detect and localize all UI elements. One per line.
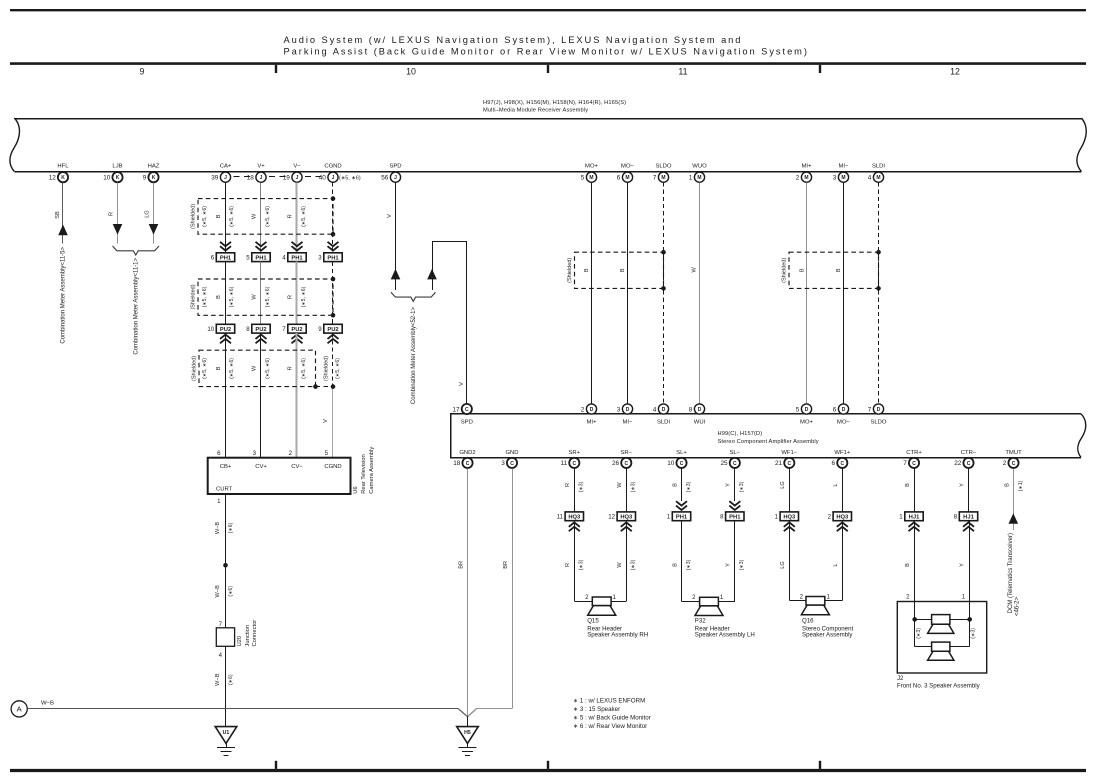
svg-text:(∗5, ∗6): (∗5, ∗6)	[339, 175, 361, 181]
arrow from DCM	[1009, 513, 1019, 524]
header rule	[10, 62, 1086, 65]
svg-text:SLDO: SLDO	[655, 163, 671, 169]
amplifier pin 17(C) SPD	[462, 404, 472, 414]
svg-text:K: K	[61, 175, 65, 181]
svg-text:C: C	[840, 461, 844, 467]
svg-text:B: B	[905, 563, 911, 567]
svg-text:1: 1	[899, 514, 903, 521]
svg-text:∗ 1 : w/ LEXUS ENFORM: ∗ 1 : w/ LEXUS ENFORM	[573, 697, 645, 704]
svg-text:B: B	[216, 295, 222, 299]
svg-text:3: 3	[253, 450, 257, 457]
svg-text:Multi–Media Module Receiver As: Multi–Media Module Receiver Assembly	[483, 107, 588, 113]
svg-text:R: R	[565, 483, 571, 487]
svg-text:B: B	[620, 268, 626, 272]
svg-text:1: 1	[962, 593, 966, 600]
svg-text:W: W	[617, 482, 623, 488]
svg-text:CTR−: CTR−	[961, 450, 977, 456]
amplifier pin 6(D) MO−	[838, 404, 848, 414]
svg-text:PU2: PU2	[255, 327, 266, 333]
svg-text:R: R	[288, 295, 294, 299]
wire GND2 BR	[467, 468, 469, 716]
svg-text:J: J	[332, 175, 335, 181]
svg-text:(∗3): (∗3)	[739, 481, 745, 492]
amplifier pin 5(D) MO+	[801, 404, 811, 414]
junction connector U20	[216, 628, 234, 647]
svg-text:Junction: Junction	[245, 625, 251, 647]
connector arrows out of PU2 at 297	[292, 335, 303, 344]
top border rule	[10, 9, 1086, 11]
wire CV+ W (PU2 to camera)	[260, 333, 262, 458]
svg-text:SLDI: SLDI	[872, 163, 885, 169]
svg-text:SLDO: SLDO	[870, 420, 886, 426]
svg-text:7: 7	[653, 175, 657, 182]
shield box MO+/MO-	[575, 252, 664, 288]
svg-text:4: 4	[219, 652, 223, 659]
svg-text:11: 11	[560, 460, 567, 467]
svg-text:MO+: MO+	[800, 420, 813, 426]
svg-text:(∗3): (∗3)	[631, 481, 637, 492]
svg-text:7: 7	[219, 621, 223, 628]
svg-text:18: 18	[247, 175, 255, 182]
shield box 3 (CB+/CV+/CV-)	[199, 350, 316, 386]
wire Y to J2 pin 1	[969, 521, 971, 620]
wire B to P32 pin 2	[681, 521, 683, 602]
svg-text:PH1: PH1	[327, 256, 339, 262]
svg-text:CV+: CV+	[255, 464, 267, 470]
svg-text:LG: LG	[780, 561, 786, 568]
svg-text:M: M	[841, 175, 845, 181]
svg-text:11: 11	[557, 514, 564, 521]
svg-text:J: J	[260, 175, 263, 181]
svg-text:Y: Y	[959, 563, 965, 567]
svg-text:56: 56	[381, 175, 389, 182]
svg-text:5: 5	[796, 406, 800, 413]
connector arrows into PH1 at 297	[292, 242, 303, 251]
ground U1	[215, 727, 237, 744]
svg-text:(∗5, ∗6): (∗5, ∗6)	[202, 358, 208, 379]
wire CGND V (to camera)	[332, 387, 334, 458]
svg-text:SPD: SPD	[461, 420, 473, 426]
svg-text:L: L	[833, 563, 839, 566]
svg-text:MI−: MI−	[623, 420, 634, 426]
connector PU2 pin 10	[216, 324, 234, 333]
svg-text:HQ3: HQ3	[783, 515, 796, 521]
svg-text:(∗3): (∗3)	[579, 481, 585, 492]
svg-text:Y: Y	[726, 563, 732, 567]
svg-text:B: B	[800, 268, 806, 272]
svg-text:39: 39	[211, 175, 219, 182]
svg-text:Speaker Assembly: Speaker Assembly	[802, 632, 853, 639]
svg-text:(∗3): (∗3)	[739, 559, 745, 570]
svg-text:(∗5, ∗6): (∗5, ∗6)	[229, 286, 235, 307]
wire MI+ to MO+ B	[806, 182, 808, 403]
connector arrows out of PU2 at 225.5	[220, 335, 231, 344]
svg-text:H97(J), H98(X), H156(M), H158(: H97(J), H98(X), H156(M), H158(N), H164(R…	[483, 100, 626, 106]
wire CV- R (PU2 to camera)	[296, 333, 298, 458]
svg-text:2: 2	[289, 450, 293, 457]
brace LJB/HAZ	[113, 246, 160, 255]
svg-text:GND: GND	[505, 450, 518, 456]
svg-text:6: 6	[617, 175, 621, 182]
svg-text:H99(C), H157(D): H99(C), H157(D)	[718, 431, 763, 437]
svg-text:B: B	[672, 483, 678, 487]
svg-text:WF1+: WF1+	[834, 450, 850, 456]
svg-text:PH1: PH1	[676, 515, 688, 521]
svg-text:CA+: CA+	[220, 163, 232, 169]
svg-text:2: 2	[796, 175, 800, 182]
shield box 3 link to drain	[316, 386, 334, 388]
svg-text:3: 3	[501, 460, 505, 467]
svg-text:MO+: MO+	[585, 163, 598, 169]
svg-text:(∗5, ∗6): (∗5, ∗6)	[301, 206, 307, 227]
arrow from combination meter (HAZ)	[149, 224, 159, 235]
ground H5	[467, 717, 469, 727]
svg-text:CTR+: CTR+	[906, 450, 922, 456]
svg-text:W−B: W−B	[215, 522, 221, 535]
wire GND BR	[512, 468, 514, 708]
svg-text:W: W	[252, 294, 258, 300]
svg-text:K: K	[116, 175, 120, 181]
svg-text:W: W	[252, 365, 258, 371]
svg-text:12: 12	[950, 67, 960, 77]
svg-text:∗ 6 : w/ Rear View Monitor: ∗ 6 : w/ Rear View Monitor	[573, 723, 647, 730]
svg-text:P32: P32	[695, 617, 706, 624]
svg-text:D: D	[662, 407, 666, 413]
wire CB+ B (PU2 to camera)	[225, 333, 227, 458]
svg-text:M: M	[661, 175, 665, 181]
shield box MI+/MI-	[789, 252, 879, 288]
svg-text:9: 9	[140, 67, 145, 77]
svg-text:B: B	[672, 563, 678, 567]
svg-text:8: 8	[954, 514, 958, 521]
multi-media module receiver assembly band	[14, 118, 1081, 120]
svg-text:2: 2	[692, 594, 696, 601]
arrow to combination meter (HFL)	[58, 225, 68, 236]
svg-text:6: 6	[833, 406, 837, 413]
wire HFL SB	[62, 182, 64, 243]
svg-text:(∗5, ∗6): (∗5, ∗6)	[202, 206, 208, 227]
svg-text:K: K	[152, 175, 156, 181]
svg-text:MO−: MO−	[837, 420, 850, 426]
svg-text:Speaker Assembly RH: Speaker Assembly RH	[587, 632, 648, 639]
amplifier pin 8(D) WUI	[694, 404, 704, 414]
svg-text:BR: BR	[459, 561, 465, 569]
svg-text:DCM (Telematics Transceiver): DCM (Telematics Transceiver)	[1008, 533, 1014, 613]
wire CA+ B (PH1 to PU2)	[225, 262, 227, 325]
svg-text:D: D	[698, 407, 702, 413]
svg-text:B: B	[216, 366, 222, 370]
svg-text:D: D	[626, 407, 630, 413]
svg-text:V+: V+	[257, 163, 265, 169]
svg-text:(∗5, ∗6): (∗5, ∗6)	[335, 358, 341, 379]
svg-text:(∗5, ∗6): (∗5, ∗6)	[265, 358, 271, 379]
connector PU2 pin 7	[288, 324, 306, 333]
svg-text:C: C	[912, 461, 916, 467]
svg-text:3: 3	[617, 406, 621, 413]
svg-text:22: 22	[954, 460, 962, 467]
television camera assembly U6 box	[208, 458, 351, 494]
wire V+ W (upper)	[260, 182, 262, 252]
svg-text:SL−: SL−	[729, 450, 740, 456]
connector arrows into PH1 at 225.5	[220, 242, 231, 251]
wire W-B camera ground	[225, 494, 227, 628]
wire W to Q15 pin 1	[626, 521, 628, 602]
svg-text:1: 1	[217, 498, 221, 505]
svg-text:5: 5	[581, 175, 585, 182]
amplifier pin 7(D) SLDO	[873, 404, 883, 414]
svg-text:B: B	[216, 214, 222, 218]
svg-text:Q15: Q15	[587, 617, 599, 624]
svg-text:(∗3): (∗3)	[631, 559, 637, 570]
svg-text:W: W	[617, 562, 623, 568]
svg-text:21: 21	[775, 460, 783, 467]
svg-text:HQ3: HQ3	[568, 515, 581, 521]
svg-text:M: M	[697, 175, 701, 181]
wire V- R (upper)	[296, 182, 298, 252]
svg-text:2: 2	[1003, 460, 1007, 467]
svg-text:PU2: PU2	[220, 327, 231, 333]
svg-text:8: 8	[689, 406, 693, 413]
svg-text:M: M	[804, 175, 808, 181]
wire R to Q15 pin 2	[574, 521, 576, 602]
svg-text:Stereo Component Amplifier Ass: Stereo Component Amplifier Assembly	[718, 439, 819, 445]
svg-text:WF1−: WF1−	[781, 450, 797, 456]
connector PH1 pin 4	[288, 253, 306, 262]
svg-text:R: R	[288, 214, 294, 218]
wire HAZ LG	[153, 182, 155, 243]
svg-text:PH1: PH1	[729, 515, 741, 521]
svg-text:J: J	[394, 175, 397, 181]
svg-text:(Shielded): (Shielded)	[567, 258, 573, 283]
wire B to J2 pin 2	[914, 521, 916, 620]
wire V from combination meter to amplifier	[432, 242, 434, 290]
arrow to combination meter (SPD)	[391, 269, 401, 280]
svg-text:(Shielded): (Shielded)	[781, 258, 787, 283]
svg-text:6: 6	[211, 254, 215, 261]
svg-text:Combination Meter Assembly<11-: Combination Meter Assembly<11-1>	[133, 258, 139, 355]
svg-text:5: 5	[246, 254, 250, 261]
svg-text:C: C	[733, 461, 737, 467]
svg-text:1: 1	[667, 514, 671, 521]
svg-text:SR+: SR+	[568, 450, 580, 456]
svg-text:B: B	[836, 268, 842, 272]
svg-text:7: 7	[282, 326, 286, 333]
svg-text:HJ1: HJ1	[963, 515, 974, 521]
svg-text:12: 12	[608, 514, 615, 521]
shield box 1 (CA+/V+/V-)	[198, 199, 333, 235]
svg-text:25: 25	[720, 460, 728, 467]
svg-text:C: C	[466, 461, 470, 467]
speaker J2 lower	[932, 642, 950, 651]
svg-text:HAZ: HAZ	[148, 163, 160, 169]
svg-text:CGND: CGND	[324, 464, 341, 470]
svg-text:(∗5, ∗6): (∗5, ∗6)	[229, 358, 235, 379]
svg-text:∗ 5 : w/ Back Guide Monitor: ∗ 5 : w/ Back Guide Monitor	[573, 715, 651, 722]
svg-text:8: 8	[246, 326, 250, 333]
svg-text:R: R	[288, 366, 294, 370]
wire SLDI to SLDO shield drain (dashed)	[878, 182, 880, 403]
svg-text:MI+: MI+	[587, 420, 598, 426]
connector link dashes V-/CGND	[305, 176, 325, 178]
svg-text:(∗3): (∗3)	[686, 559, 692, 570]
svg-text:LG: LG	[144, 210, 150, 217]
svg-text:Q16: Q16	[802, 617, 814, 624]
svg-text:Camera Assembly: Camera Assembly	[369, 447, 375, 494]
svg-text:1: 1	[689, 175, 693, 182]
svg-text:<46-2>: <46-2>	[1015, 597, 1021, 617]
svg-text:3: 3	[833, 175, 837, 182]
svg-text:W: W	[691, 266, 697, 272]
splice on W-B wire	[223, 563, 228, 568]
svg-text:5: 5	[325, 450, 329, 457]
svg-text:LJB: LJB	[112, 163, 122, 169]
svg-text:10: 10	[406, 67, 416, 77]
svg-text:2: 2	[828, 514, 832, 521]
wire SLDO to SLDI shield drain (dashed)	[663, 182, 665, 403]
svg-text:J2: J2	[897, 675, 904, 682]
svg-text:C: C	[572, 461, 576, 467]
svg-text:D: D	[877, 407, 881, 413]
svg-text:R: R	[108, 212, 114, 216]
svg-text:C: C	[680, 461, 684, 467]
svg-text:(Shielded): (Shielded)	[190, 284, 196, 309]
svg-text:Y: Y	[726, 483, 732, 487]
svg-text:Connector: Connector	[252, 620, 258, 647]
svg-text:6: 6	[217, 450, 221, 457]
wire SPD V	[395, 182, 397, 290]
svg-text:1: 1	[827, 593, 831, 600]
svg-text:L: L	[833, 483, 839, 486]
svg-text:Audio System (w/ LEXUS Navigat: Audio System (w/ LEXUS Navigation System…	[284, 35, 743, 45]
svg-text:(∗5, ∗6): (∗5, ∗6)	[301, 358, 307, 379]
svg-text:(Shielded): (Shielded)	[191, 356, 197, 381]
svg-text:J: J	[224, 175, 227, 181]
svg-text:W: W	[252, 213, 258, 219]
svg-text:9: 9	[318, 326, 322, 333]
svg-text:(∗5, ∗6): (∗5, ∗6)	[301, 286, 307, 307]
svg-text:C: C	[787, 461, 791, 467]
svg-text:10: 10	[207, 326, 214, 333]
grid tick 10/11 bottom	[547, 761, 549, 769]
svg-text:MI+: MI+	[802, 163, 813, 169]
svg-text:(∗3): (∗3)	[970, 628, 976, 639]
svg-text:W−B: W−B	[41, 701, 54, 707]
svg-text:2: 2	[800, 593, 804, 600]
connector PH1 pin 5	[252, 253, 270, 262]
svg-text:PH1: PH1	[220, 256, 232, 262]
svg-text:HQ3: HQ3	[836, 515, 849, 521]
svg-text:W−B: W−B	[215, 585, 221, 598]
wire L to Q16 pin 1	[842, 521, 844, 601]
svg-text:(∗5, ∗6): (∗5, ∗6)	[265, 286, 271, 307]
svg-text:D: D	[842, 407, 846, 413]
svg-text:10: 10	[103, 175, 111, 182]
svg-text:(∗3): (∗3)	[579, 559, 585, 570]
wire CGND shield drain (upper, dashed)	[332, 182, 334, 252]
svg-text:2: 2	[585, 594, 589, 601]
svg-text:C: C	[1012, 461, 1016, 467]
svg-text:(∗6): (∗6)	[228, 522, 234, 533]
svg-text:D: D	[805, 407, 809, 413]
svg-text:4: 4	[868, 175, 872, 182]
svg-text:1: 1	[775, 514, 779, 521]
svg-text:Y: Y	[959, 483, 965, 487]
svg-text:4: 4	[653, 406, 657, 413]
junction J2 left	[912, 617, 917, 622]
svg-text:C: C	[510, 461, 514, 467]
svg-text:(∗5, ∗6): (∗5, ∗6)	[265, 206, 271, 227]
svg-text:H5: H5	[464, 730, 471, 736]
svg-text:3: 3	[318, 254, 322, 261]
svg-text:(∗6): (∗6)	[228, 674, 234, 685]
wire CA+ B (upper)	[225, 182, 227, 252]
svg-text:WUO: WUO	[692, 163, 707, 169]
svg-text:CB+: CB+	[220, 464, 232, 470]
svg-text:M: M	[589, 175, 593, 181]
svg-text:U20: U20	[237, 636, 243, 647]
svg-text:(∗3): (∗3)	[686, 481, 692, 492]
svg-text:26: 26	[612, 460, 620, 467]
connector arrows out of PU2 at 261	[256, 335, 267, 344]
wire LJB R	[117, 182, 119, 243]
svg-text:B: B	[1005, 483, 1011, 487]
svg-text:CGND: CGND	[324, 163, 341, 169]
svg-text:PU2: PU2	[291, 327, 302, 333]
svg-text:Front No. 3 Speaker Assembly: Front No. 3 Speaker Assembly	[897, 682, 981, 689]
svg-text:GND2: GND2	[459, 450, 475, 456]
wire MO+ to MI+ B	[591, 182, 593, 403]
svg-text:B: B	[905, 483, 911, 487]
svg-text:1: 1	[720, 594, 724, 601]
svg-text:17: 17	[452, 406, 460, 413]
wire V- R (PH1 to PU2)	[296, 262, 298, 325]
svg-text:Rear Television: Rear Television	[361, 454, 367, 494]
grid tick 9/10 bottom	[275, 761, 277, 769]
svg-text:V: V	[459, 382, 465, 386]
svg-text:M: M	[876, 175, 880, 181]
svg-text:U6: U6	[353, 486, 359, 493]
svg-text:9: 9	[143, 175, 147, 182]
svg-text:10: 10	[667, 460, 675, 467]
junction J2 right	[967, 617, 972, 622]
svg-text:CURT: CURT	[216, 487, 233, 493]
svg-text:(Shielded): (Shielded)	[190, 204, 196, 229]
svg-text:(∗3): (∗3)	[916, 628, 922, 639]
svg-text:Combination Meter Assembly<11-: Combination Meter Assembly<11-5>	[60, 247, 66, 344]
svg-text:7: 7	[903, 460, 907, 467]
brace SPD pair	[391, 292, 436, 301]
svg-text:4: 4	[282, 254, 286, 261]
wire Y to P32 pin 1	[734, 521, 736, 602]
svg-text:1: 1	[613, 594, 617, 601]
svg-text:PU2: PU2	[327, 327, 338, 333]
arrow from combination meter (LJB)	[113, 224, 123, 235]
svg-text:R: R	[565, 563, 571, 567]
grid tick 9/10 top	[275, 65, 277, 73]
svg-text:SL+: SL+	[676, 450, 687, 456]
wire V+ W (PH1 to PU2)	[260, 262, 262, 325]
svg-text:(Shielded): (Shielded)	[324, 356, 330, 381]
amplifier pin 2(D) MI+	[586, 404, 596, 414]
amplifier pin 4(D) SLDI	[658, 404, 668, 414]
connector arrows out of PU2 at 333	[328, 335, 339, 344]
wire CGND drain (dashed to shield box 3)	[332, 333, 334, 387]
connector PU2 pin 9	[324, 324, 342, 333]
wire MI- to MO- B	[843, 182, 845, 403]
svg-text:2: 2	[581, 406, 585, 413]
svg-text:LG: LG	[780, 481, 786, 488]
node A circle	[11, 701, 27, 717]
